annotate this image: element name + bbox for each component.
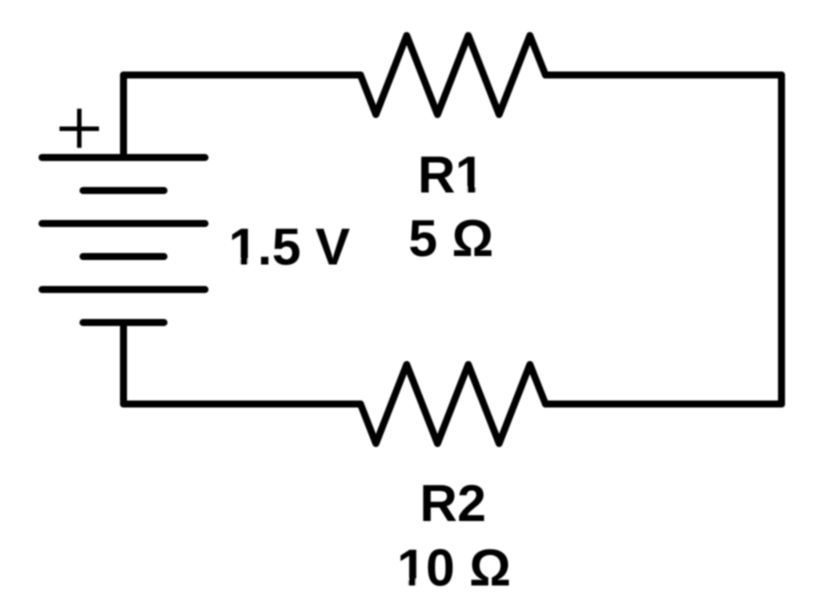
wire top stub from battery positive terminal (120, 75, 127, 158)
svg-text:R1: R1 (418, 147, 484, 205)
battery BT1 plate long 1 (positive) (42, 154, 205, 161)
battery BT1 plate short 1 (83, 187, 164, 194)
svg-text:R2: R2 (420, 475, 486, 533)
polarity plus sign (60, 109, 100, 148)
battery BT1 plate long 3 (42, 286, 205, 293)
wire bottom right segment (546, 401, 782, 408)
wire top right segment (546, 72, 782, 79)
wire right side (778, 75, 785, 404)
resistor R1 (361, 36, 546, 115)
battery BT1 plate long 2 (42, 220, 205, 227)
battery BT1 plate short 2 (83, 253, 164, 260)
battery value label 1.5 V (228, 219, 350, 277)
wire bottom left segment (124, 401, 361, 408)
label R1 (418, 147, 487, 205)
value label 10 &#937; (396, 539, 511, 597)
svg-text:5 Ω: 5 Ω (408, 210, 493, 268)
wire bottom stub to battery negative terminal (120, 323, 127, 405)
resistor R2 (361, 365, 546, 444)
svg-text:10 Ω: 10 Ω (397, 539, 511, 597)
svg-text:1.5 V: 1.5 V (229, 219, 351, 277)
battery BT1 plate short 3 (negative) (83, 319, 164, 326)
wire top left segment (124, 72, 361, 79)
